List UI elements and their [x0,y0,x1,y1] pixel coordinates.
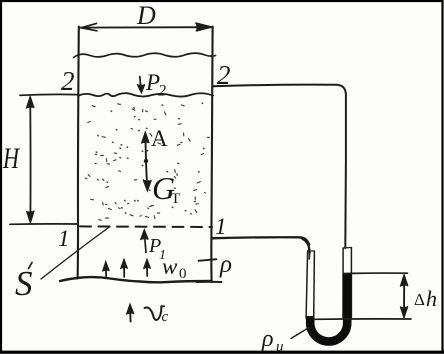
dimension D line [79,26,212,28]
tank right wall [211,27,212,283]
label Vc [145,306,165,320]
svg-text:T: T [171,191,180,207]
svg-text:и: и [276,339,284,354]
tank right wall bottom foot [197,281,222,283]
inlet arrow 1 [105,264,107,277]
svg-text:h: h [426,286,437,311]
leader from rho_u to U bend [291,328,309,339]
surface wavy line at section 2-2 [79,93,214,96]
svg-text:2: 2 [158,83,166,100]
tank left wall [78,27,79,279]
svg-text:A: A [151,126,168,151]
H dimension top line [20,93,78,96]
tick on right wall near rho [199,259,217,261]
H dimension bottom line [10,223,78,225]
dimension D right arrowhead [196,23,211,31]
manometer right tube glass walls [342,248,344,318]
svg-text:c: c [162,309,169,325]
lower pipe from section 1 to manometer [212,237,310,253]
delta-h vertical arrow [403,277,405,316]
arrow Vc up [129,307,132,322]
svg-text:S: S [15,264,33,303]
svg-text:0: 0 [179,266,187,282]
node dot center of force arrows [144,159,148,163]
speckle texture of suspension in tank [86,104,210,220]
upper pipe from section 2 to manometer [213,85,346,248]
svg-text:1: 1 [58,226,70,251]
leader line from S to section 1-1 [41,227,110,280]
svg-text:D: D [136,1,156,30]
svg-text:H: H [2,141,21,175]
delta-h top reference line [352,272,408,274]
mercury top edge left leg [306,316,314,318]
svg-text:ρ: ρ [261,326,274,352]
bottom wavy inlet line [60,277,211,282]
top wavy liquid line [74,53,216,57]
svg-text:2: 2 [61,66,75,96]
inlet arrow 2 [123,261,125,277]
arrow G_T down [146,162,147,188]
arrow P2 down [140,77,141,91]
H dimension vertical arrow [29,98,31,221]
mercury fill: U bend and right column [310,274,347,342]
manometer left tube glass walls [306,251,308,318]
svg-text:1: 1 [215,214,227,239]
svg-text:Δ: Δ [414,290,425,309]
inlet arrow 3 [146,261,148,276]
arrow P1 up [144,232,146,253]
dimension D left arrowhead [81,23,97,30]
delta-h bottom reference line [314,318,411,320]
svg-text:ρ: ρ [219,251,232,278]
mercury top edge right leg [343,272,351,274]
svg-text:w: w [162,254,178,279]
dashed line section 1-1 [80,225,212,228]
arrow A up [144,135,147,160]
